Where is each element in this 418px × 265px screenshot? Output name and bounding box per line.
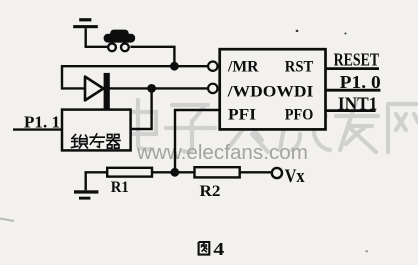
- wire from pushbutton down to /MR line: [130, 47, 174, 64]
- wire R2 to Vx terminal: [240, 171, 272, 173]
- wire R1 to R2: [152, 171, 195, 173]
- pin WDI bubble: [208, 84, 217, 93]
- svg-text:/MR: /MR: [227, 59, 259, 76]
- svg-text:PFO: PFO: [285, 107, 314, 124]
- svg-text:www.elecfans.com: www.elecfans.com: [136, 142, 308, 164]
- wire INT1 output: [326, 109, 376, 112]
- op-amp U1 supervisor IC box: [220, 49, 326, 129]
- caption 图 4: [199, 242, 210, 255]
- pushbutton S1 right contact: [121, 43, 129, 51]
- svg-text:RST: RST: [285, 59, 314, 76]
- wire from power rail to pushbutton: [86, 28, 107, 47]
- svg-text:INT1: INT1: [338, 94, 378, 114]
- 网: [388, 104, 418, 152]
- terminal Vx: [272, 168, 282, 178]
- diode D1: [85, 73, 110, 109]
- wire PFI to divider junction: [175, 110, 220, 170]
- 电: [120, 100, 156, 149]
- junction on WDI line: [147, 84, 156, 93]
- svg-text:P1. 0: P1. 0: [340, 72, 381, 92]
- pushbutton S1 cap: [104, 30, 136, 43]
- svg-text:R2: R2: [200, 183, 221, 200]
- latch box: [62, 110, 131, 151]
- 器: [107, 134, 120, 148]
- wire /MR line, left loop and WDI line: [62, 66, 208, 88]
- wire RST output: [326, 67, 379, 70]
- wire P1.0 output: [326, 89, 381, 92]
- scan specks: [296, 30, 347, 35]
- resistor R1: [107, 168, 152, 177]
- 锁: [72, 135, 78, 148]
- 子: [166, 105, 215, 152]
- svg-text:RESET: RESET: [334, 49, 380, 69]
- junction on /MR line: [170, 62, 179, 71]
- svg-text:Vx: Vx: [285, 167, 306, 187]
- power rail symbol (top): [73, 18, 98, 28]
- wire ground up to divider rail: [86, 172, 108, 190]
- scan streak: [0, 219, 14, 222]
- ground symbol (bottom left): [74, 190, 98, 199]
- svg-text:PFI: PFI: [228, 107, 256, 124]
- pushbutton S1 left contact: [108, 43, 116, 51]
- latch label 锁存器: [72, 134, 121, 148]
- pin /MR bubble: [208, 61, 217, 70]
- watermark big chinese characters: [120, 100, 418, 152]
- svg-text:/WDOWDI: /WDOWDI: [227, 83, 314, 100]
- resistor R2: [195, 167, 240, 177]
- wire from WDI junction to latch output: [131, 88, 152, 129]
- svg-text:4: 4: [213, 239, 224, 259]
- 烧: [280, 100, 330, 150]
- 友: [336, 102, 378, 152]
- wire P1.1 into latch: [13, 128, 62, 130]
- junction divider node: [170, 168, 179, 177]
- 发: [224, 102, 270, 152]
- svg-text:R1: R1: [111, 179, 129, 196]
- 存: [90, 134, 104, 147]
